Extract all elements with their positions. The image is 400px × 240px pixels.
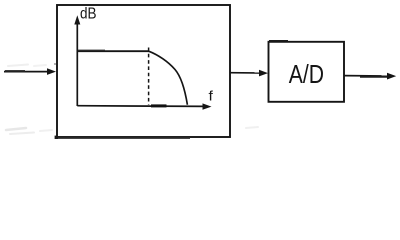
curve: filter roll-off curve bbox=[149, 51, 187, 105]
block: A/D converter box bbox=[269, 42, 345, 102]
svg-text:dB: dB bbox=[80, 6, 97, 23]
wire: filter output to A/D input bbox=[230, 70, 269, 77]
wire: extra weight on A/D box top-left edge bbox=[269, 40, 288, 42]
axis: vertical dB axis with arrowhead bbox=[74, 15, 80, 106]
wire: A/D output signal bbox=[345, 73, 397, 80]
axis: horizontal f axis with arrowhead bbox=[77, 103, 211, 109]
svg-text:f: f bbox=[209, 89, 214, 104]
svg-text:A/D: A/D bbox=[289, 59, 324, 89]
block: anti-aliasing low-pass filter box bbox=[57, 5, 230, 137]
curve: filter passband flat response bbox=[77, 49, 149, 52]
wire: filter box bottom-left corner blob bbox=[55, 136, 58, 139]
marker: bold tick segment on f axis below cutoff bbox=[151, 104, 167, 107]
marker: dashed cutoff frequency line bbox=[148, 48, 150, 105]
scan noise smudges (decorative) bbox=[6, 63, 258, 134]
wire: extra weight on filter box bottom edge bbox=[56, 137, 190, 139]
wire: input signal into filter bbox=[4, 68, 56, 75]
